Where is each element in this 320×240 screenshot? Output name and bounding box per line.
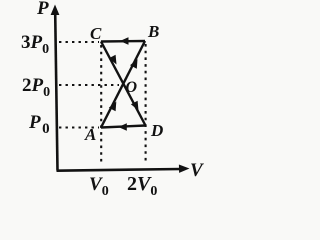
arrow on bottom line D to A (left) — [118, 123, 127, 131]
cycle line D to A (bottom) — [101, 126, 146, 128]
svg-text:C: C — [90, 24, 102, 43]
arrow on segment O to B (up-right) — [130, 59, 138, 69]
dotted line 2P0 to O — [59, 84, 119, 86]
dotted vertical 2V0 line — [145, 44, 147, 163]
svg-text:A: A — [84, 125, 96, 144]
arrow on segment O to D (down-right) — [131, 101, 139, 111]
cycle line B to C (top) — [101, 40, 145, 43]
svg-text:O: O — [126, 79, 138, 96]
V axis arrowhead — [179, 165, 190, 173]
svg-text:B: B — [147, 22, 159, 41]
svg-text:P: P — [36, 0, 49, 19]
P axis arrowhead — [51, 5, 60, 16]
P axis (vertical) — [55, 13, 57, 171]
cycle diagonal C to D — [101, 42, 146, 126]
dotted line 3P0 to C — [59, 41, 99, 43]
V axis (horizontal) — [57, 169, 182, 171]
svg-text:V: V — [190, 160, 204, 181]
dotted line P0 to A — [59, 126, 99, 128]
arrow on segment A to O (up-right) — [109, 102, 117, 112]
P-V thermodynamic cycle diagram — [0, 0, 219, 203]
svg-text:D: D — [150, 121, 163, 140]
arrow on segment C to O (down-right) — [109, 55, 117, 65]
arrow on top line B to C (left) — [120, 37, 129, 45]
dotted vertical V0 line — [100, 45, 102, 163]
cycle diagonal A to B — [101, 41, 145, 128]
